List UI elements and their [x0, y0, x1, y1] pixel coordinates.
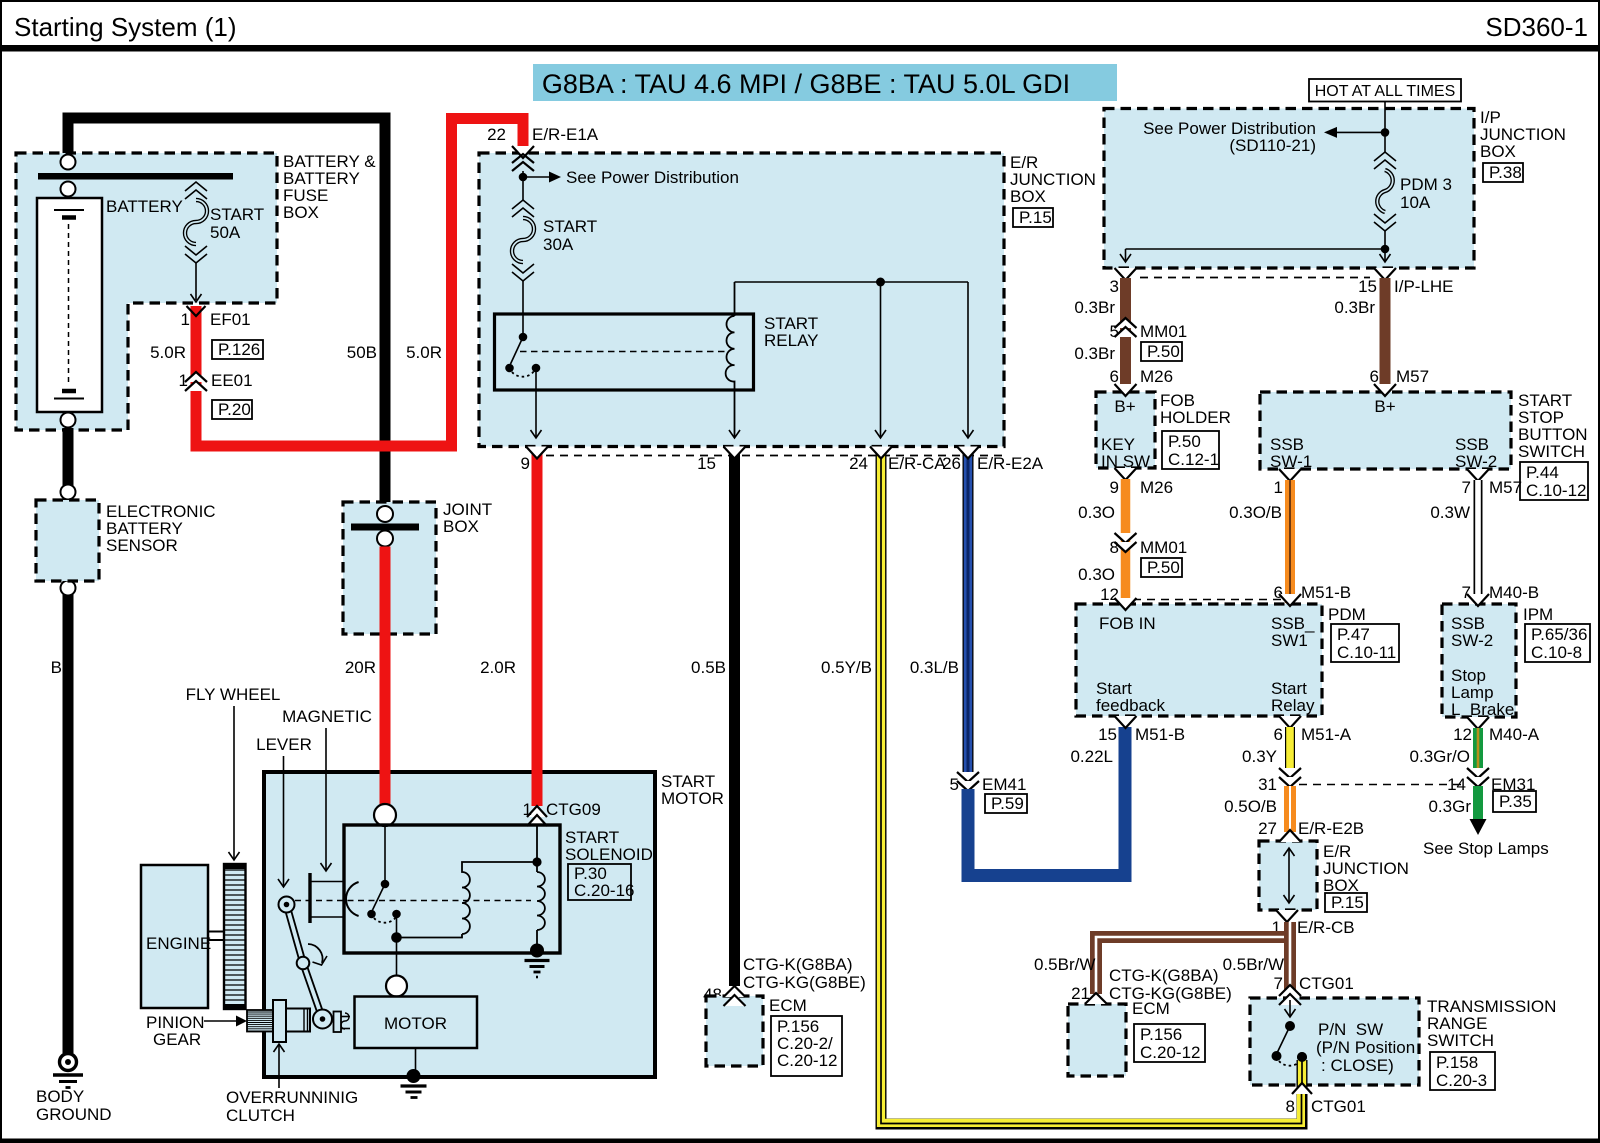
svg-text:7: 7	[1274, 974, 1283, 993]
wire white 0.3W	[1474, 480, 1483, 603]
dashed rail 31-14	[1299, 784, 1465, 786]
connector 8 MM01	[1115, 533, 1137, 543]
svg-text:P/N SW: P/N SW	[1318, 1020, 1383, 1039]
svg-text:P.50: P.50	[1147, 342, 1180, 361]
wire yellow 0.5Y/B	[881, 450, 1302, 1124]
E/R junction box small	[1259, 841, 1317, 910]
svg-text:feedback: feedback	[1096, 696, 1165, 715]
connector 15 M51-B	[1115, 716, 1137, 728]
svg-text:0.3Br: 0.3Br	[1334, 298, 1375, 317]
svg-text:SENSOR: SENSOR	[106, 536, 178, 555]
wire red 2.0R into box	[532, 770, 543, 806]
svg-text:0.3O: 0.3O	[1078, 503, 1115, 522]
svg-text:B+: B+	[1114, 397, 1135, 416]
svg-text:HOLDER: HOLDER	[1160, 408, 1231, 427]
svg-text:(P/N Position: (P/N Position	[1316, 1038, 1415, 1057]
electronic battery sensor wire	[63, 428, 74, 1053]
svg-text:C.20-3: C.20-3	[1436, 1071, 1487, 1090]
svg-text:P.65/36: P.65/36	[1531, 625, 1587, 644]
svg-text:P.44: P.44	[1526, 463, 1559, 482]
start solenoid box	[344, 825, 560, 953]
svg-text:P.20: P.20	[218, 400, 251, 419]
connector 31	[1279, 768, 1301, 778]
svg-text:5.0R: 5.0R	[150, 343, 186, 362]
connector 1 CTG09	[527, 806, 547, 817]
start stop button switch	[1260, 392, 1511, 469]
svg-text:26: 26	[942, 454, 961, 473]
wire orange 0.3O	[1121, 479, 1131, 605]
wire red 20R into box	[380, 770, 391, 804]
connector 22 E/R-E1A	[512, 146, 534, 158]
svg-text:0.3Gr/O: 0.3Gr/O	[1410, 747, 1470, 766]
svg-text:PDM: PDM	[1328, 605, 1366, 624]
svg-text:MM01: MM01	[1140, 322, 1187, 341]
svg-text:C.10-11: C.10-11	[1337, 643, 1396, 662]
svg-text:0.3Br: 0.3Br	[1074, 298, 1115, 317]
wire hot to node	[1384, 102, 1386, 153]
node see power distribution	[522, 171, 524, 200]
svg-text:: CLOSE): : CLOSE)	[1321, 1056, 1394, 1075]
svg-text:G8BA : TAU 4.6 MPI / G8BE : TA: G8BA : TAU 4.6 MPI / G8BE : TAU 5.0L GDI	[542, 69, 1070, 99]
svg-text:M57: M57	[1396, 367, 1429, 386]
svg-text:IPM: IPM	[1523, 605, 1553, 624]
battery B1	[37, 198, 102, 412]
connector 26	[957, 447, 979, 459]
svg-text:12: 12	[1453, 725, 1472, 744]
wire black 0.5B	[729, 450, 740, 986]
lever rotation arrow	[308, 944, 323, 963]
wire red 20R	[380, 547, 391, 807]
svg-text:EE01: EE01	[211, 371, 253, 390]
svg-text:0.3L/B: 0.3L/B	[910, 658, 959, 677]
wire blue 0.22L	[968, 727, 1125, 876]
motor terminal	[396, 938, 398, 979]
svg-text:7: 7	[1462, 583, 1471, 602]
relay coil	[726, 282, 735, 437]
svg-text:CTG-KG(G8BE): CTG-KG(G8BE)	[743, 973, 866, 992]
svg-text:START: START	[543, 217, 597, 236]
svg-text:FLY WHEEL: FLY WHEEL	[186, 685, 281, 704]
connector 1 E/R-CB	[1276, 910, 1298, 922]
svg-text:0.5Br/W: 0.5Br/W	[1223, 955, 1284, 974]
svg-text:MOTOR: MOTOR	[384, 1014, 447, 1033]
start relay	[495, 314, 754, 390]
connector 7 M57	[1467, 469, 1489, 481]
svg-text:P.15: P.15	[1019, 208, 1052, 227]
svg-text:E/R-E2A: E/R-E2A	[977, 454, 1044, 473]
engine	[141, 865, 208, 1008]
connector EF01	[187, 306, 206, 316]
svg-text:SOLENOID: SOLENOID	[565, 845, 653, 864]
start motor box	[264, 772, 655, 1077]
svg-text:CTG-K(G8BA): CTG-K(G8BA)	[743, 955, 853, 974]
dashed connector rail	[546, 455, 1008, 457]
fuse PDM 3 10A	[1374, 152, 1396, 262]
svg-text:1: 1	[1274, 478, 1283, 497]
wire node to 24/26	[735, 281, 969, 283]
svg-text:P.47: P.47	[1337, 625, 1370, 644]
svg-text:CTG01: CTG01	[1299, 974, 1354, 993]
header band	[533, 64, 1117, 101]
svg-text:EF01: EF01	[210, 310, 251, 329]
svg-text:SW-2: SW-2	[1455, 452, 1497, 471]
solenoid dashed axis	[295, 900, 531, 902]
fuse START 50A	[185, 182, 207, 302]
svg-text:BOX: BOX	[1480, 142, 1516, 161]
svg-text:P.50: P.50	[1168, 432, 1201, 451]
svg-text:C.20-16: C.20-16	[574, 881, 634, 900]
svg-text:0.22L: 0.22L	[1070, 747, 1113, 766]
svg-text:BOX: BOX	[1010, 187, 1046, 206]
svg-text:5: 5	[950, 775, 959, 794]
motor ground	[407, 1069, 421, 1083]
svg-text:10A: 10A	[1400, 193, 1431, 212]
svg-text:CTG-KG(G8BE): CTG-KG(G8BE)	[1109, 984, 1232, 1003]
svg-text:HOT AT ALL TIMES: HOT AT ALL TIMES	[1315, 83, 1456, 100]
svg-text:P.126: P.126	[218, 340, 260, 359]
svg-text:SWITCH: SWITCH	[1518, 442, 1585, 461]
svg-text:P.35: P.35	[1499, 792, 1532, 811]
wire black battery-top	[68, 118, 385, 506]
magnetic plunger	[308, 873, 311, 923]
IPM box	[1442, 604, 1516, 717]
fly wheel	[224, 864, 246, 1009]
connector 5 MM01	[1115, 318, 1137, 328]
svg-text:P.38: P.38	[1489, 163, 1522, 182]
svg-text:E/R-E1A: E/R-E1A	[532, 125, 599, 144]
svg-text:See Power Distribution: See Power Distribution	[566, 168, 739, 187]
svg-text:15: 15	[1358, 277, 1377, 296]
svg-text:BOX: BOX	[443, 517, 479, 536]
pinion gear	[247, 1010, 274, 1032]
svg-text:15: 15	[697, 454, 716, 473]
connector EE01	[185, 372, 207, 382]
svg-text:7: 7	[1462, 478, 1471, 497]
svg-text:START: START	[210, 205, 264, 224]
svg-text:22: 22	[487, 125, 506, 144]
svg-text:SW-2: SW-2	[1451, 631, 1493, 650]
svg-text:C.20-12: C.20-12	[1140, 1043, 1200, 1062]
svg-text:FOB IN: FOB IN	[1099, 614, 1156, 633]
wire green 0.3Gr	[1473, 786, 1483, 822]
svg-text:PDM 3: PDM 3	[1400, 175, 1452, 194]
svg-text:MAGNETIC: MAGNETIC	[282, 707, 372, 726]
svg-text:8: 8	[1286, 1097, 1295, 1116]
svg-text:BOX: BOX	[283, 203, 319, 222]
svg-text:0.5Y/B: 0.5Y/B	[821, 658, 872, 677]
svg-text:CLUTCH: CLUTCH	[226, 1106, 295, 1125]
svg-text:M51-B: M51-B	[1301, 583, 1351, 602]
wire red 2.0R	[532, 450, 543, 806]
svg-text:C.10-8: C.10-8	[1531, 643, 1582, 662]
solenoid hold coil	[397, 862, 538, 938]
see stop lamps arrow	[1470, 819, 1487, 835]
svg-text:50B: 50B	[347, 343, 377, 362]
wire brown/white 0.5Br/W down	[1096, 937, 1290, 994]
svg-text:P.15: P.15	[1331, 893, 1364, 912]
svg-text:M51-B: M51-B	[1135, 725, 1185, 744]
solenoid ground	[530, 944, 544, 958]
I/P junction box	[1104, 109, 1474, 269]
connector 5 EM41	[957, 772, 979, 782]
svg-text:0.3Gr: 0.3Gr	[1428, 797, 1471, 816]
svg-text:GEAR: GEAR	[153, 1030, 201, 1049]
connector 15 I/P-LHE	[1374, 268, 1396, 280]
svg-text:P.59: P.59	[991, 794, 1024, 813]
joint box	[343, 502, 436, 634]
svg-text:5: 5	[1110, 322, 1119, 341]
svg-text:Relay: Relay	[1271, 696, 1315, 715]
svg-text:OVERRUNNINIG: OVERRUNNINIG	[226, 1088, 358, 1107]
svg-text:B+: B+	[1374, 397, 1395, 416]
connector 3	[1115, 268, 1137, 280]
svg-text:C.12-1: C.12-1	[1168, 450, 1219, 469]
svg-text:24: 24	[849, 454, 868, 473]
svg-text:E/R-CB: E/R-CB	[1297, 918, 1355, 937]
svg-text:RELAY: RELAY	[764, 331, 819, 350]
overrunning clutch assembly	[273, 1000, 286, 1042]
svg-text:Starting System (1): Starting System (1)	[14, 12, 237, 42]
wire yellow from P/N switch	[1297, 1060, 1308, 1092]
svg-text:31: 31	[1258, 775, 1277, 794]
svg-text:EM41: EM41	[982, 775, 1026, 794]
svg-text:See Stop Lamps: See Stop Lamps	[1423, 839, 1549, 858]
svg-text:SD360-1: SD360-1	[1485, 12, 1588, 42]
svg-text:SW1: SW1	[1271, 631, 1308, 650]
wire blue 0.3L/B	[963, 450, 974, 774]
svg-text:ENGINE: ENGINE	[146, 934, 211, 953]
wire red EE01 to E/R 22	[196, 119, 523, 447]
svg-text:6: 6	[1370, 367, 1379, 386]
svg-text:B: B	[51, 658, 62, 677]
svg-text:P.158: P.158	[1436, 1053, 1478, 1072]
svg-text:LEVER: LEVER	[256, 735, 312, 754]
svg-text:MOTOR: MOTOR	[661, 789, 724, 808]
wire yellow 0.3Y	[1285, 727, 1295, 772]
svg-text:30A: 30A	[543, 235, 574, 254]
svg-text:SWITCH: SWITCH	[1427, 1031, 1494, 1050]
svg-text:9: 9	[521, 454, 530, 473]
svg-text:MM01: MM01	[1140, 538, 1187, 557]
motor	[355, 997, 478, 1049]
relay switch	[519, 333, 528, 342]
connector 24	[870, 447, 892, 459]
svg-text:M40-A: M40-A	[1489, 725, 1540, 744]
connector 8 CTG01	[1292, 1083, 1312, 1094]
connector 1	[1279, 469, 1301, 481]
svg-text:BATTERY: BATTERY	[106, 197, 183, 216]
svg-text:P.156: P.156	[1140, 1025, 1182, 1044]
ECM box left	[706, 996, 763, 1066]
svg-text:M40-B: M40-B	[1489, 583, 1539, 602]
svg-text:6: 6	[1110, 367, 1119, 386]
svg-text:(SD110-21): (SD110-21)	[1229, 136, 1316, 155]
connector 9	[526, 447, 548, 459]
svg-text:CTG09: CTG09	[546, 800, 601, 819]
transmission range switch	[1250, 998, 1419, 1085]
wire orange/black 0.3O/B	[1285, 480, 1295, 603]
svg-text:0.3Br: 0.3Br	[1074, 344, 1115, 363]
svg-text:E/R-CA: E/R-CA	[888, 454, 946, 473]
battery terminal circles	[61, 155, 76, 170]
svg-text:ECM: ECM	[1132, 999, 1170, 1018]
svg-text:0.5Br/W: 0.5Br/W	[1034, 955, 1095, 974]
svg-text:C.10-12: C.10-12	[1526, 481, 1586, 500]
svg-text:21: 21	[1071, 984, 1090, 1003]
svg-text:CTG-K(G8BA): CTG-K(G8BA)	[1109, 966, 1219, 985]
node split to 3 and 15	[1381, 245, 1390, 254]
svg-text:P.50: P.50	[1147, 558, 1180, 577]
solenoid pull coil	[537, 826, 545, 946]
fuse START 30A	[512, 200, 534, 333]
svg-text:I/P-LHE: I/P-LHE	[1394, 277, 1454, 296]
svg-text:CTG01: CTG01	[1311, 1097, 1366, 1116]
PDM box	[1076, 604, 1322, 716]
connector 6 M51-A	[1279, 716, 1301, 728]
solenoid switch	[384, 826, 386, 884]
svg-text:0.3O: 0.3O	[1078, 565, 1115, 584]
battery & battery fuse box	[16, 153, 277, 430]
wire orange 0.5O/B	[1284, 786, 1296, 832]
svg-text:15: 15	[1098, 725, 1117, 744]
svg-text:1: 1	[181, 310, 190, 329]
hot at all times	[1309, 79, 1461, 102]
svg-text:50A: 50A	[210, 223, 241, 242]
svg-text:20R: 20R	[345, 658, 376, 677]
svg-text:C.20-12: C.20-12	[777, 1051, 837, 1070]
svg-text:9: 9	[1110, 478, 1119, 497]
lever	[287, 905, 323, 1020]
svg-text:E/R-E2B: E/R-E2B	[1298, 819, 1364, 838]
svg-text:M26: M26	[1140, 478, 1173, 497]
svg-text:1: 1	[179, 371, 188, 390]
svg-text:27: 27	[1258, 819, 1277, 838]
svg-text:M57: M57	[1489, 478, 1522, 497]
connector 14 EM31	[1467, 768, 1489, 778]
svg-text:5.0R: 5.0R	[406, 343, 442, 362]
body ground	[60, 1054, 77, 1071]
connector 15	[724, 447, 746, 459]
svg-text:0.3Y: 0.3Y	[1242, 747, 1277, 766]
svg-text:0.3W: 0.3W	[1430, 503, 1470, 522]
svg-text:GROUND: GROUND	[36, 1105, 112, 1124]
svg-text:SW-1: SW-1	[1270, 452, 1312, 471]
wire brown 0.3Br left	[1120, 278, 1131, 390]
electronic battery sensor	[36, 500, 99, 581]
connector 9 M26	[1115, 468, 1137, 480]
svg-text:0.5O/B: 0.5O/B	[1224, 797, 1277, 816]
svg-text:3: 3	[1110, 277, 1119, 296]
svg-text:8: 8	[1110, 538, 1119, 557]
ECM box right	[1068, 1004, 1126, 1076]
svg-text:L_Brake: L_Brake	[1451, 700, 1514, 719]
svg-text:0.3O/B: 0.3O/B	[1229, 503, 1282, 522]
svg-text:6: 6	[1274, 725, 1283, 744]
svg-text:2.0R: 2.0R	[480, 658, 516, 677]
connector 12 M40-A	[1467, 717, 1489, 729]
svg-text:M26: M26	[1140, 367, 1173, 386]
svg-text:M51-A: M51-A	[1301, 725, 1352, 744]
svg-text:ECM: ECM	[769, 996, 807, 1015]
wire brown 0.3Br right	[1380, 278, 1391, 390]
svg-text:14: 14	[1447, 775, 1466, 794]
E/R junction box	[479, 153, 1004, 447]
svg-text:0.5B: 0.5B	[691, 658, 726, 677]
wire green/orange 0.3Gr/O	[1473, 728, 1483, 770]
svg-text:BODY: BODY	[36, 1087, 84, 1106]
battery bus bar	[38, 173, 233, 180]
svg-text:1: 1	[523, 800, 532, 819]
FOB holder	[1096, 392, 1155, 468]
